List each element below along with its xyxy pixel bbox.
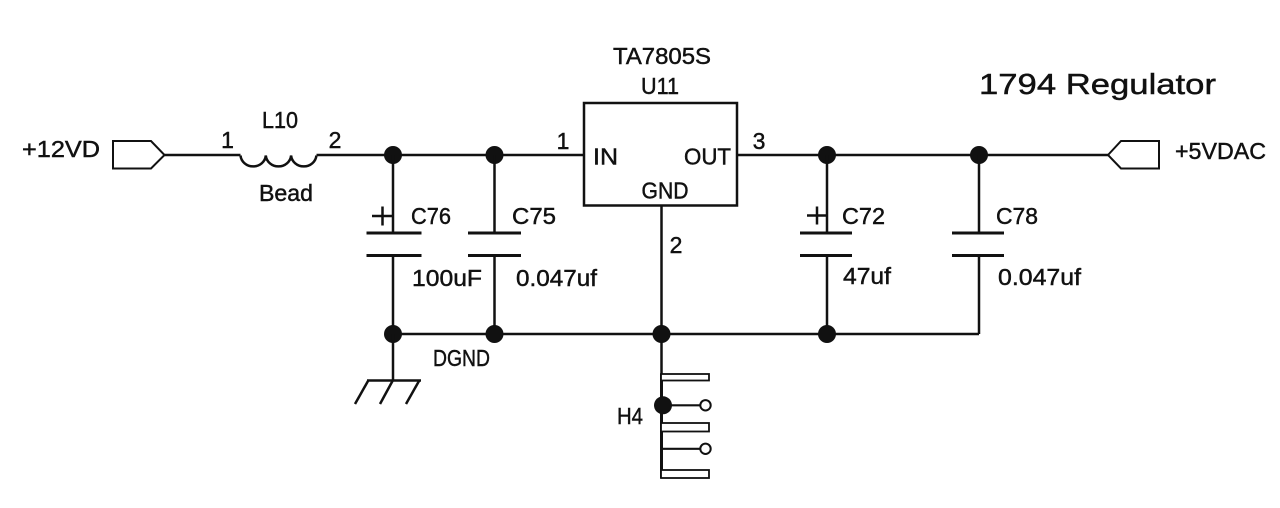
capacitor C76 xyxy=(367,155,422,334)
regulator U11 box xyxy=(584,103,737,206)
capacitor C75 xyxy=(468,155,521,334)
wire U11 GND down to rail and H4 xyxy=(660,206,663,406)
node junction dot rail C75 xyxy=(486,325,504,343)
port P2 +5VDAC xyxy=(1108,138,1266,169)
svg-text:Bead: Bead xyxy=(259,180,313,206)
svg-text:TA7805S: TA7805S xyxy=(613,43,711,69)
svg-text:1: 1 xyxy=(221,127,234,153)
node junction dot at C78 top xyxy=(970,146,988,164)
svg-text:GND: GND xyxy=(642,178,689,204)
svg-text:+5VDAC: +5VDAC xyxy=(1175,138,1266,164)
svg-text:2: 2 xyxy=(670,232,683,258)
node junction dot H4 pin 1 xyxy=(654,396,672,414)
svg-text:3: 3 xyxy=(753,128,766,154)
svg-text:+12VD: +12VD xyxy=(22,136,100,162)
ground rail wire xyxy=(393,333,979,336)
capacitor C72 xyxy=(800,155,852,334)
port P1 +12VD xyxy=(22,136,165,169)
svg-text:C76: C76 xyxy=(411,203,451,229)
node junction dot rail GND pin xyxy=(653,325,671,343)
svg-text:47uf: 47uf xyxy=(843,263,892,289)
svg-text:C72: C72 xyxy=(842,203,885,229)
node junction dot at C72 top xyxy=(818,146,836,164)
svg-text:0.047uf: 0.047uf xyxy=(998,264,1082,290)
svg-text:1794 Regulator: 1794 Regulator xyxy=(979,69,1216,101)
svg-text:U11: U11 xyxy=(641,73,679,99)
svg-text:H4: H4 xyxy=(617,403,643,429)
svg-text:C78: C78 xyxy=(996,203,1038,229)
node junction dot rail C72 xyxy=(818,325,836,343)
svg-text:DGND: DGND xyxy=(433,345,490,371)
node junction dot at C75 top xyxy=(486,146,504,164)
svg-text:0.047uf: 0.047uf xyxy=(516,265,598,291)
svg-text:L10: L10 xyxy=(262,107,298,133)
svg-text:100uF: 100uF xyxy=(412,265,482,291)
wire L10 to U11 pin 1 xyxy=(317,154,585,157)
node junction dot rail left xyxy=(384,325,402,343)
wire to chassis ground xyxy=(392,334,395,380)
svg-text:2: 2 xyxy=(329,127,342,153)
capacitor C78 xyxy=(952,155,1004,334)
inductor L10 xyxy=(241,156,317,167)
connector H4 xyxy=(661,374,711,478)
wire U11 OUT to port xyxy=(737,154,1108,157)
wire input to L10 xyxy=(165,154,241,157)
svg-text:IN: IN xyxy=(593,144,618,170)
svg-text:C75: C75 xyxy=(512,203,556,229)
chassis ground symbol xyxy=(355,381,421,405)
svg-text:1: 1 xyxy=(557,128,570,154)
node junction dot at C76 top xyxy=(384,146,402,164)
svg-text:OUT: OUT xyxy=(684,144,731,170)
